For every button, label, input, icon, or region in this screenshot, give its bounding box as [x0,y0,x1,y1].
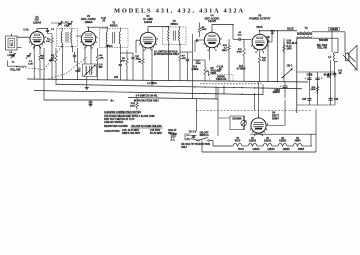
svg-text:1: 1 [203,44,204,46]
label TO S-2 [189,132,197,134]
wire C8 leads [132,53,134,57]
svg-text:2: 2 [254,135,255,137]
on-off switch S2 [196,132,213,141]
svg-text:MEG: MEG [222,50,227,52]
svg-text:2: 2 [144,50,145,52]
label L4 [328,56,331,59]
svg-text:5: 5 [97,37,98,39]
label R7 value [182,56,186,60]
IF transformer T1 [57,28,78,48]
label V6 [272,110,280,120]
tube V5 [251,32,269,54]
wire R2 to bus [39,63,41,80]
wire volume to bus [204,78,206,81]
speaker [345,45,357,70]
wire filter bottom [297,104,336,106]
capacitor C16 speaker [333,62,337,78]
label switch note [181,143,210,149]
svg-text:50C5: 50C5 [235,140,241,142]
label R-8 upper [236,66,245,70]
wire gang ground run [7,61,9,67]
resistor R5 [126,55,129,68]
svg-text:2: 2 [208,50,209,52]
wire T4 to speaker green [344,32,346,53]
wire line cord top [191,134,197,136]
svg-text:BROWN: BROWN [233,119,242,121]
svg-text:3: 3 [215,50,216,52]
wire V1 cathode [39,46,41,53]
bus AVC line [56,84,302,89]
svg-text:4: 4 [220,43,221,46]
resistor R10 [228,43,231,53]
capacitor C7 bypass [89,100,93,103]
ground [89,103,93,107]
wire V2 grid stub [76,35,81,37]
label T3 [170,19,178,26]
heater V6 [287,143,302,146]
resistor R16 [316,84,319,94]
label R9 volume [211,67,222,75]
label C15D value [302,99,307,101]
volume control R9 [204,60,209,78]
svg-text:CB-1: CB-1 [287,64,293,67]
svg-text:TUBULAR: TUBULAR [216,78,227,81]
label R11 value [237,49,243,53]
label R8 value [202,27,207,31]
label loop [7,51,14,57]
svg-text:S-4 SWITCH ON 431: S-4 SWITCH ON 431 [136,95,159,98]
svg-text:455KC: 455KC [105,45,112,48]
label C14 value [271,29,276,34]
wire V3 cathode down [142,48,144,56]
wire R7 bottom [179,64,181,81]
tube V1 [29,30,46,50]
heater V3 [257,143,272,146]
label R14 value [287,40,297,51]
label V5 [249,13,271,20]
label R5 value [121,58,126,62]
label V5 type [256,25,263,29]
wire loop to V1 grid [17,36,30,38]
notes text block [104,111,177,135]
svg-text:12BA6: 12BA6 [33,21,42,25]
svg-text:12BE6: 12BE6 [279,140,287,142]
svg-text:C-1A: C-1A [23,29,29,32]
wire V4 pin down [209,48,211,61]
wire V6 plate up to bus [258,82,260,118]
wire heater return left [201,141,203,153]
svg-text:12BE6: 12BE6 [282,149,290,151]
label heater V1 [249,138,260,151]
svg-text:5: 5 [221,38,222,40]
svg-text:20MFD 450-450V: 20MFD 450-450V [122,132,141,135]
svg-text:3: 3 [92,48,93,50]
wire R8 leads [199,23,201,26]
wire V4 grid cap [199,39,204,41]
wire heater top run [250,133,316,135]
svg-text:IN PRODUCTION ONLY: IN PRODUCTION ONLY [154,54,180,56]
wire R10 vertical [228,39,230,43]
svg-text:12BA6: 12BA6 [267,148,275,151]
svg-text:12BA6: 12BA6 [252,148,260,151]
wire pilot to dashed bus [218,117,230,119]
label antenna note [23,29,29,32]
pilot lamp box [230,116,245,130]
svg-text:35W4: 35W4 [294,139,301,142]
label heater V2 [279,138,290,151]
wire T3 left bottom [168,44,170,58]
label CB-1 [287,64,293,67]
resistor R4 [96,52,99,64]
heater V1 [242,143,257,146]
wire dropper 216 [215,87,217,99]
svg-text:3: 3 [263,52,264,54]
wire V4 plate [211,25,213,33]
capacitor C15C [315,77,323,80]
capacitor C6 [73,55,76,56]
svg-text:1: 1 [250,129,251,131]
svg-text:PAPER: PAPER [217,75,225,78]
wire V6 cathode up [284,100,286,126]
label C3 [51,29,55,31]
resistor R2 [39,53,42,63]
label heater V6 [294,138,304,151]
variable capacitor C4 [58,21,63,27]
bus switch line [128,98,218,100]
label C-12A upper [217,65,224,70]
pilot lamp I1 [241,116,246,130]
wire R5 top [126,50,128,55]
wire switch to heater string [212,141,214,147]
label C-15 above T2 [101,18,107,22]
label T1 [64,21,70,28]
label T4 [304,26,308,30]
wire B+ stub [44,99,108,101]
label R1a [46,38,50,42]
loop antenna L1 [6,34,18,51]
svg-text:22K: 22K [100,57,104,59]
wire C13 to V5 grid [244,38,251,40]
svg-text:ONLY: ONLY [181,147,188,149]
dashed gang coupling line [16,45,87,80]
wire V6 cathode right [266,125,285,127]
label yellow lead [10,68,21,71]
interlock plug [185,134,191,140]
label B+ [111,99,115,103]
wire detector to volume [193,59,206,61]
voice coil L4 [334,53,339,62]
wire dropper 263 [262,84,264,94]
ground [85,86,89,90]
label bus voltage [114,76,119,79]
svg-text:1: 1 [139,44,140,46]
wire T1 bottom left down [61,46,63,80]
svg-text:12BA6: 12BA6 [249,139,257,142]
label V4 [205,13,220,23]
label BROWN [319,39,329,42]
svg-text:VALUES IN OHMS UNLESS: VALUES IN OHMS UNLESS [131,125,162,128]
resistor R7 [179,52,182,64]
svg-text:BLUE: BLUE [287,28,294,31]
label C15A value [272,89,280,94]
svg-text:ON 431A 'B' PRODUCTION: ON 431A 'B' PRODUCTION [181,143,210,146]
label GREEN boxed [329,27,340,31]
label 455KC below T2 [105,45,112,48]
svg-text:2: 2 [33,47,34,49]
label C2 [28,61,33,65]
wire R4 bottom [97,64,99,80]
label L2 [75,67,81,72]
svg-text:TO S-2: TO S-2 [189,132,197,134]
label R-9 upper [191,66,198,70]
label C15B value [307,75,313,77]
resistor R14 [283,42,286,54]
label V2 [81,14,96,24]
svg-text:12BA6: 12BA6 [264,139,272,142]
wire R4 top [97,48,99,52]
svg-text:455KC: 455KC [170,22,178,26]
tube V3 [139,30,157,52]
label heater V4 [235,137,245,151]
IF transformer T2 [100,28,129,49]
dashed switch coupling [197,110,313,112]
wire T3 left bottom 2 [168,58,170,81]
variable capacitor C1 [11,53,16,59]
wire V2 pin left down [77,48,79,80]
junction dots on buses [194,86,263,95]
variable capacitor C5 [68,21,73,27]
svg-text:4.7 MEG: 4.7 MEG [236,67,245,70]
capacitor C18 [328,99,332,101]
svg-text:5-80: 5-80 [28,63,33,65]
wire filter left vertical [296,38,298,113]
wire grid return [43,48,45,100]
svg-text:4: 4 [266,128,267,131]
wire C6 leads [74,52,76,55]
heater V2 [272,143,287,146]
wire V3 grid [136,39,140,41]
svg-text:OSC: OSC [75,70,80,73]
wire R3 top [55,48,57,52]
svg-text:1400: 1400 [130,104,136,107]
svg-text:500K: 500K [211,72,217,75]
svg-text:POWER OUTPUT: POWER OUTPUT [249,16,271,20]
wire C14 down [267,38,269,82]
svg-text:1: 1 [251,46,252,48]
wire R5 bottom [126,68,128,80]
svg-text:470K: 470K [196,62,202,65]
wire line cord bottom [191,139,198,141]
wire V6 bottom [258,133,260,134]
label C-6 osc [99,64,104,68]
svg-text:1: 1 [29,42,30,44]
wire V1 plate up [36,29,38,32]
wire loop lower [17,47,22,49]
svg-text:50C5: 50C5 [238,149,244,151]
svg-text:1400: 1400 [287,48,293,51]
svg-text:RESISTORS SHOWN: RESISTORS SHOWN [104,125,128,128]
svg-text:100K: 100K [202,29,207,31]
tube V4 [203,30,221,52]
wire filter vertical 3 [330,60,332,105]
svg-text:C15: 40-40 MFD: C15: 40-40 MFD [122,129,139,132]
wire T2 left bottom [106,47,108,81]
wire V2 pins to osc coil [84,45,86,64]
tube V2 [80,29,97,49]
wire volume shaft down [217,87,219,136]
wire heater to top run [310,134,312,146]
capacitor C8 [131,57,134,58]
label R6 value [138,59,142,63]
label C16 value [338,71,342,75]
capacitor C9 [186,59,189,60]
label speaker model [317,44,328,49]
svg-text:35W4: 35W4 [298,148,305,151]
svg-text:4: 4 [96,41,97,44]
resistor R11 [243,44,246,60]
label R3 value [49,55,55,62]
wire detector node [180,51,193,53]
wire dropper 254 [254,93,256,111]
svg-text:B+: B+ [111,99,115,103]
svg-text:A.C.: A.C. [171,138,176,141]
wire screen line right [277,31,279,82]
svg-text:YELLOW: YELLOW [317,47,328,49]
wire T1 secondary to V2 grid [72,46,74,53]
capacitor C13 coupling [233,38,244,41]
resistor R6 [142,56,145,67]
resistor R3 [55,52,58,66]
svg-text:1.2 MEG: 1.2 MEG [147,82,157,85]
title [114,7,243,14]
label C-8 value [135,56,139,61]
dashed paper tubular outline [200,83,263,85]
wire T3 secondary to detector [179,44,181,52]
svg-text:47K: 47K [182,57,186,60]
svg-text:MEG: MEG [49,60,54,62]
svg-text:1: 1 [80,42,81,44]
variable capacitor C2 [26,53,31,59]
svg-text:12AV6: 12AV6 [208,19,216,23]
capacitor C19 speaker [327,73,330,77]
svg-text:455KC: 455KC [110,24,118,28]
IF transformer T3 [163,26,187,46]
svg-text:5: 5 [45,37,46,39]
wire above T1 [51,22,69,24]
svg-text:4: 4 [44,41,45,44]
wire heater return bottom [202,151,316,153]
svg-text:1 MEG: 1 MEG [191,69,198,71]
label V3 [143,14,154,24]
label C13 value [237,32,242,36]
svg-text:CAPACITORS: CAPACITORS [104,130,120,133]
wire B+ column [283,38,285,82]
svg-text:40 MFD: 40 MFD [324,74,332,77]
svg-text:40MFD: 40MFD [272,91,280,94]
wire filter right edge [334,72,336,105]
tube V6 [250,116,268,137]
capacitor C15B [305,77,312,80]
capacitor C17 line filter [192,135,195,138]
wire R15 top [136,97,138,100]
svg-text:IN PRODUCTION ONLY: IN PRODUCTION ONLY [134,100,160,102]
svg-text:SWITCH: SWITCH [199,135,208,137]
wire yellow tap [331,31,333,53]
svg-text:12BE6: 12BE6 [85,20,93,24]
capacitor C15A [280,82,288,98]
svg-text:GREEN: GREEN [330,29,339,31]
svg-text:LINE-NO SIGNAL: LINE-NO SIGNAL [104,121,124,124]
bus return line [34,91,263,95]
svg-text:C15 450V: C15 450V [150,129,161,132]
circuit breaker CB-1 [282,69,293,79]
resistor R9 [204,64,207,78]
svg-text:47K: 47K [121,60,125,63]
wire osc coil to ground [86,77,88,87]
label line cord [171,134,178,141]
wire V3 plate top [147,27,149,33]
bus screen line [27,79,308,82]
svg-text:4: 4 [156,43,157,46]
label C18 value [334,99,339,101]
svg-text:SLO-BLO: SLO-BLO [287,43,297,45]
label V1 [33,15,42,25]
wire plate to coupling cap [232,25,234,40]
label R10 value [222,45,228,52]
AC plug [343,53,356,72]
label C1 [12,62,16,64]
svg-text:117V: 117V [171,137,177,139]
label R2 value [41,56,45,60]
wire filter vertical 1 [308,72,310,105]
svg-text:C15B: C15B [307,75,313,77]
label 1.2 MEG [147,82,157,85]
wire R12 leads [259,50,261,53]
label T2 [110,21,118,28]
label paper tubular [210,74,234,81]
heater string end wire [302,145,312,147]
switch S4 note [134,95,160,103]
wire R6 bottom [142,67,144,81]
wire filter vertical 2 [317,72,319,105]
label C10 value [196,60,202,64]
resistor R8 [198,25,201,35]
label R12 value [262,57,267,61]
wire V5 plate to T4 [259,31,261,35]
junction dots top row [47,24,278,32]
capacitor C3 coupling [46,29,49,34]
label R15 value [130,103,136,107]
label BLUE [287,28,294,31]
svg-text:BROWN: BROWN [319,39,329,42]
svg-text:S-1 SWITCH ON 431A: S-1 SWITCH ON 431A [154,51,178,54]
resistor R12 [258,53,261,66]
wire AVC feed [192,34,194,99]
wire R11 leads [243,39,245,44]
capacitor C11 grid [195,39,199,52]
svg-text:ANT.: ANT. [64,24,70,28]
svg-text:50C5: 50C5 [256,25,263,29]
resistor R1a [51,35,54,46]
wire heater right drop [315,110,317,153]
svg-text:CORD: CORD [171,134,178,136]
svg-text:12BA6: 12BA6 [144,20,153,24]
wire V2 plate to T2 [88,27,90,31]
wire T2 secondary to V3 [119,47,121,54]
svg-text:80+40 MFD: 80+40 MFD [150,132,162,135]
wire V5 screen right [268,41,273,43]
svg-text:YELLOW: YELLOW [10,68,21,71]
